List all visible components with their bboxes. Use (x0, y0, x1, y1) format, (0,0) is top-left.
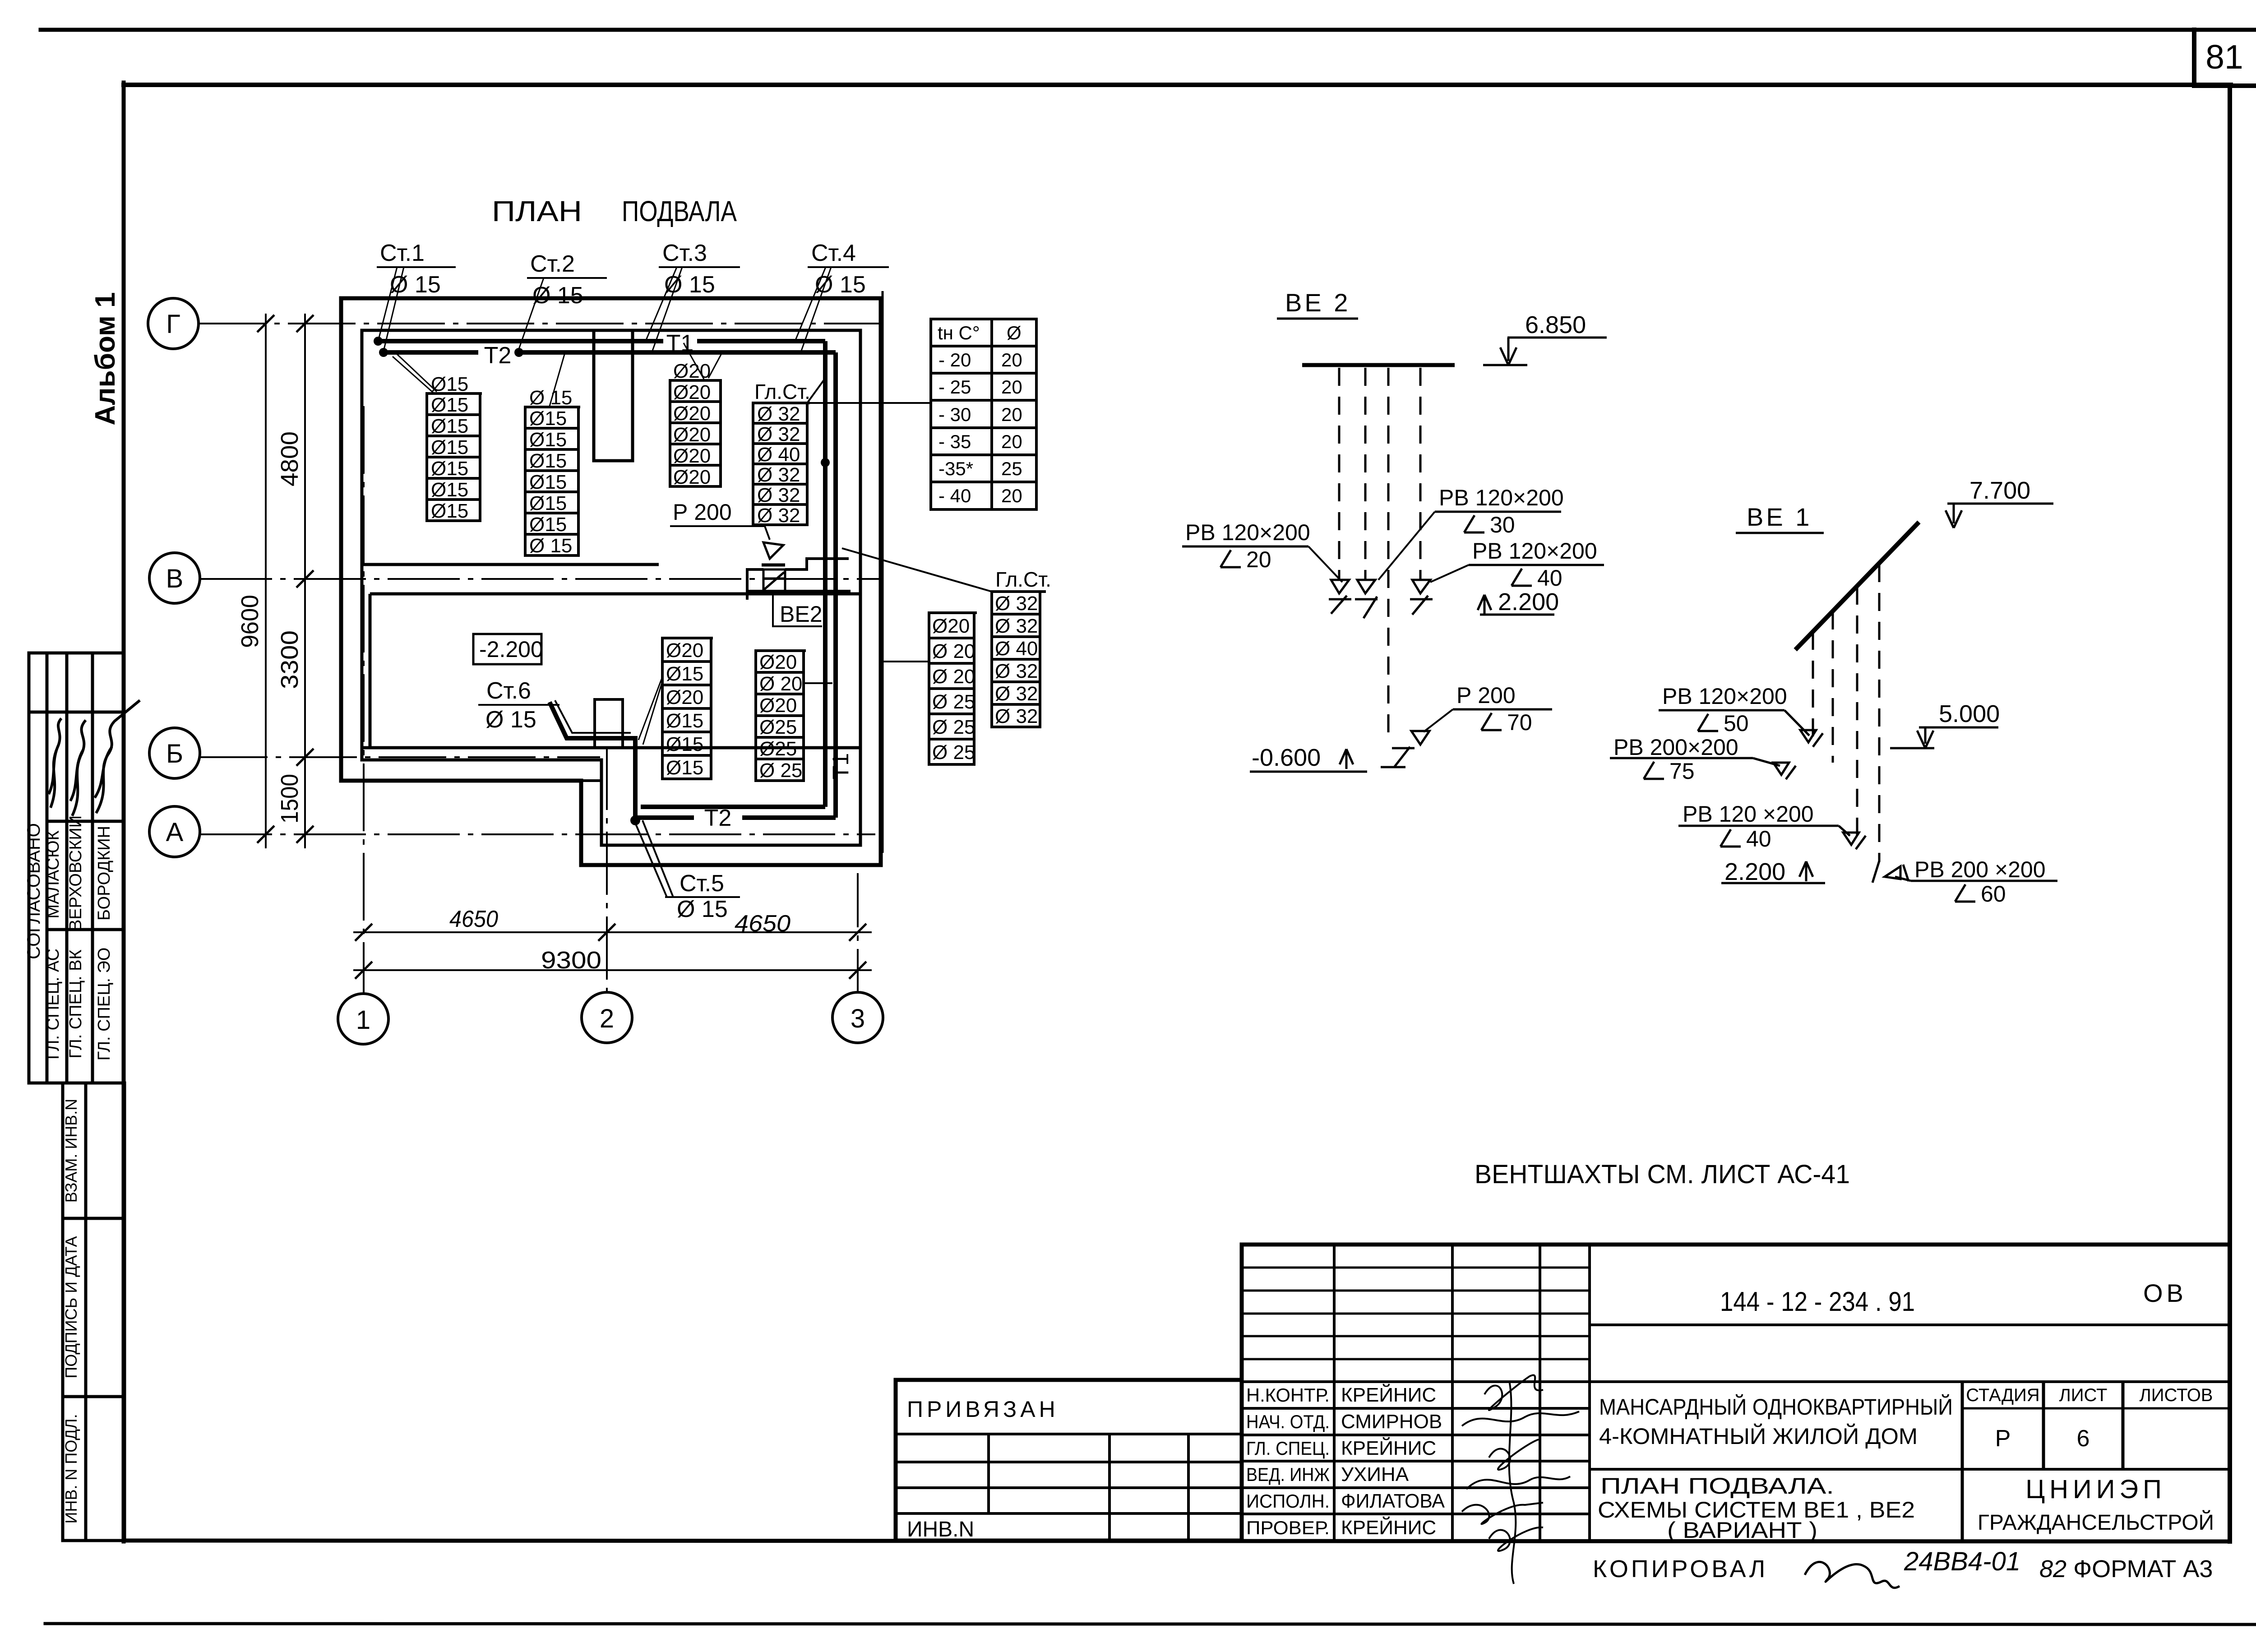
svg-text:ГЛ. СПЕЦ. АС: ГЛ. СПЕЦ. АС (44, 949, 63, 1060)
svg-text:ВЕРХОВСКИЙ: ВЕРХОВСКИЙ (65, 815, 85, 931)
svg-text:6.850: 6.850 (1525, 311, 1586, 338)
svg-text:НАЧ. ОТД.: НАЧ. ОТД. (1246, 1411, 1330, 1432)
left approval stamp table (СОГЛАСОВАНО) (29, 653, 124, 1083)
pipe junction dot T1 (374, 337, 383, 346)
svg-text:ВЕНТШАХТЫ СМ. ЛИСТ АС-41: ВЕНТШАХТЫ СМ. ЛИСТ АС-41 (1475, 1160, 1850, 1189)
svg-text:Ø 20: Ø 20 (932, 640, 975, 662)
svg-text:Ø20: Ø20 (666, 686, 703, 708)
svg-text:Ø15: Ø15 (431, 458, 468, 480)
pipe T1 top run (378, 339, 825, 343)
svg-text:Т1: Т1 (828, 753, 853, 779)
ВЕ1 dashed duct 4 (1878, 564, 1881, 862)
svg-text:3300: 3300 (276, 630, 303, 689)
svg-text:4800: 4800 (276, 431, 303, 486)
svg-text:Ø20: Ø20 (673, 403, 711, 425)
svg-text:Ø 32: Ø 32 (995, 683, 1038, 705)
svg-text:9600: 9600 (236, 595, 264, 648)
Р200 plan leader (670, 526, 770, 540)
svg-text:ЛИСТОВ: ЛИСТОВ (2140, 1385, 2213, 1405)
stack S5 leader (638, 677, 662, 745)
svg-text:РВ 200 ×200: РВ 200 ×200 (1914, 857, 2046, 882)
svg-text:Ø 15: Ø 15 (529, 535, 572, 557)
svg-text:Ø15: Ø15 (431, 436, 468, 458)
svg-text:20: 20 (1001, 376, 1022, 398)
svg-text:ЦНИИЭП: ЦНИИЭП (2025, 1475, 2166, 1504)
svg-text:МАЛАСЮК: МАЛАСЮК (44, 830, 63, 918)
svg-text:81: 81 (2205, 38, 2243, 76)
svg-text:Б: Б (166, 739, 183, 768)
svg-text:24ВВ4-01: 24ВВ4-01 (1904, 1547, 2020, 1576)
svg-text:ФИЛАТОВА: ФИЛАТОВА (1341, 1490, 1445, 1512)
svg-text:20: 20 (1001, 404, 1022, 425)
vent chamber box (747, 559, 851, 600)
frame bottom edge (124, 1541, 2230, 1541)
svg-text:Ø 25: Ø 25 (932, 716, 975, 738)
svg-text:Ø: Ø (1007, 322, 1022, 343)
svg-text:ИНВ.N: ИНВ.N (907, 1518, 974, 1541)
svg-text:МАНСАРДНЫЙ ОДНОКВАРТИРНЫЙ: МАНСАРДНЫЙ ОДНОКВАРТИРНЫЙ (1599, 1394, 1953, 1420)
ВЕ2 dashed duct 3 (long) (1387, 368, 1390, 740)
svg-text:20: 20 (1001, 431, 1022, 452)
svg-text:tн C°: tн C° (938, 322, 980, 343)
svg-text:20: 20 (1001, 349, 1022, 370)
ВЕ1 dashed duct 2 (1832, 611, 1834, 763)
svg-text:- 20: - 20 (938, 349, 971, 370)
svg-text:Ø 32: Ø 32 (995, 705, 1038, 727)
sheet outer bottom border (45, 1624, 2256, 1624)
svg-text:20: 20 (1246, 547, 1271, 572)
riser leader Ст.1 (378, 267, 404, 351)
bottom dimension line 4650+4650 (353, 931, 872, 933)
bottom dimension line 9300 (353, 969, 872, 971)
svg-text:Ø15: Ø15 (431, 394, 468, 416)
svg-text:Ø 15: Ø 15 (485, 707, 536, 733)
svg-text:Ø15: Ø15 (666, 663, 703, 685)
svg-text:В: В (166, 564, 184, 593)
svg-text:25: 25 (1001, 458, 1022, 479)
svg-text:Ø20: Ø20 (759, 651, 797, 673)
svg-text:Ø 25: Ø 25 (759, 759, 802, 782)
riser leader Ст.4 (795, 267, 831, 352)
svg-text:БОРОДКИН: БОРОДКИН (95, 826, 114, 921)
svg-text:ОВ: ОВ (2143, 1279, 2187, 1307)
svg-text:4650: 4650 (449, 906, 498, 932)
stack S6 of pipe diameters (756, 651, 806, 781)
leader РВ40 (1430, 565, 1469, 582)
svg-text:Ø15: Ø15 (666, 710, 703, 732)
pipe junction dot corner (821, 458, 830, 467)
axis circle Б (149, 728, 200, 778)
ВЕ2 roof line (1302, 363, 1455, 367)
svg-text:Ст.1: Ст.1 (380, 240, 425, 266)
bottom axis circle 2 (582, 992, 632, 1043)
ВЕ2 dashed duct 4 (1419, 368, 1422, 580)
stack S1 leader (393, 354, 437, 393)
frame top edge (124, 83, 2231, 87)
svg-text:Т2: Т2 (484, 342, 512, 369)
svg-text:Ø20: Ø20 (932, 615, 970, 637)
leader from plan to temp table (807, 402, 931, 404)
vent unit box with diagonal (763, 569, 785, 591)
svg-text:75: 75 (1669, 759, 1695, 784)
pipe junction dot T2 (379, 348, 388, 357)
svg-text:ИСПОЛН.: ИСПОЛН. (1246, 1490, 1330, 1512)
svg-text:5.000: 5.000 (1939, 700, 2000, 727)
svg-text:Ø 32: Ø 32 (757, 504, 800, 527)
svg-text:Ø15: Ø15 (529, 492, 567, 514)
svg-text:КРЕЙНИС: КРЕЙНИС (1341, 1383, 1436, 1406)
svg-text:Ø15: Ø15 (529, 514, 567, 536)
pipe right riser T1 vertical (641, 341, 825, 807)
svg-text:( ВАРИАНТ ): ( ВАРИАНТ ) (1667, 1518, 1817, 1543)
svg-text:Ø15: Ø15 (529, 407, 567, 430)
south room inner outline (370, 594, 860, 748)
svg-text:Ø20: Ø20 (673, 424, 711, 446)
stack S3 of pipe diameters (670, 380, 722, 486)
svg-text:Ø 40: Ø 40 (757, 444, 800, 466)
svg-text:Гл.Ст.: Гл.Ст. (754, 380, 810, 403)
title block staff rows (1242, 1382, 2230, 1514)
svg-text:СОГЛАСОВАНО: СОГЛАСОВАНО (24, 823, 44, 959)
svg-text:ГЛ. СПЕЦ. ВК: ГЛ. СПЕЦ. ВК (66, 949, 85, 1058)
svg-text:30: 30 (1490, 512, 1515, 537)
svg-text:Ø 25: Ø 25 (932, 691, 975, 713)
title block small grid upper rows (1242, 1268, 1590, 1359)
svg-text:Ø 32: Ø 32 (757, 464, 800, 486)
sheet name cell divider (1590, 1468, 2230, 1471)
pipe T2 junction dot right of label (514, 348, 523, 357)
vent unit top dash (762, 564, 785, 567)
ВЕ2 vent grille 3 (1410, 580, 1433, 615)
svg-text:ВЗАМ. ИНВ.N: ВЗАМ. ИНВ.N (62, 1099, 80, 1203)
svg-text:ГЛ. СПЕЦ. ЭО: ГЛ. СПЕЦ. ЭО (95, 948, 114, 1061)
svg-text:Ø 32: Ø 32 (757, 403, 800, 425)
ВЕ2 dashed duct 1 (1338, 368, 1341, 580)
leader РВ75 + grille (1753, 758, 1796, 779)
svg-text:Ст.4: Ст.4 (811, 240, 856, 266)
ВЕ2 label leader lines (773, 591, 822, 626)
svg-text:7.700: 7.700 (1969, 477, 2030, 504)
svg-text:Р 200: Р 200 (1456, 683, 1516, 708)
ВЕ2 vent grille 2 (1355, 580, 1378, 618)
svg-text:Ø25: Ø25 (759, 716, 797, 738)
svg-text:1500: 1500 (276, 774, 303, 824)
svg-text:60: 60 (1981, 881, 2006, 907)
stack S6 leader (804, 682, 832, 684)
svg-text:Р: Р (1995, 1425, 2011, 1452)
doc number cell divider (1590, 1323, 2230, 1326)
svg-text:РВ 120×200: РВ 120×200 (1472, 538, 1597, 564)
bottom axis circle 1 (338, 994, 388, 1044)
svg-text:ГЛ. СПЕЦ.: ГЛ. СПЕЦ. (1246, 1438, 1330, 1459)
svg-text:Ø 32: Ø 32 (757, 423, 800, 445)
wall at axis В: north room bottom (362, 563, 659, 566)
svg-text:Т2: Т2 (704, 805, 732, 831)
svg-text:УХИНА: УХИНА (1341, 1463, 1409, 1485)
pipe St6 branch (550, 702, 635, 821)
ВЕ1 roof slope line (1795, 522, 1919, 650)
svg-text:82 ФОРМАТ А3: 82 ФОРМАТ А3 (2039, 1555, 2213, 1583)
svg-text:40: 40 (1537, 565, 1563, 591)
svg-text:Ø 32: Ø 32 (995, 615, 1038, 637)
svg-text:РВ 200×200: РВ 200×200 (1613, 735, 1738, 760)
privyazan section column dividers (989, 1434, 1188, 1541)
svg-text:Ø20: Ø20 (666, 639, 703, 662)
svg-text:А: А (166, 818, 184, 847)
svg-text:Ø 40: Ø 40 (995, 638, 1038, 660)
svg-text:Ø15: Ø15 (666, 733, 703, 755)
svg-text:ВЕД. ИНЖ: ВЕД. ИНЖ (1246, 1464, 1330, 1485)
svg-text:ПРОВЕР.: ПРОВЕР. (1246, 1517, 1330, 1538)
svg-text:- 25: - 25 (938, 376, 971, 398)
bottom dimension ticks (355, 924, 866, 979)
leader РВ60 double grille (1872, 861, 1911, 883)
ВЕ2 dashed duct 2 (1364, 368, 1367, 580)
svg-text:Ø 32: Ø 32 (757, 484, 800, 506)
svg-text:Ø 20: Ø 20 (932, 666, 975, 688)
column axis 3 vertical dash-dot (857, 873, 859, 991)
riser leader Ст.5 (635, 820, 673, 897)
svg-text:КРЕЙНИС: КРЕЙНИС (1341, 1436, 1436, 1459)
svg-text:Ø 20: Ø 20 (759, 673, 802, 695)
staff labels column (1246, 1384, 1330, 1538)
svg-text:РВ 120×200: РВ 120×200 (1185, 520, 1310, 545)
leader diagonal to ГлСт table (842, 548, 992, 592)
bottom axis circle 3 (832, 992, 883, 1043)
svg-text:Ст.3: Ст.3 (662, 240, 707, 266)
leader РВ40-1 + grille (1839, 826, 1866, 849)
column axis 2 vertical dash-dot (606, 747, 608, 991)
svg-text:ВЕ 1: ВЕ 1 (1747, 503, 1812, 531)
leader РВ50 + grille (1784, 710, 1823, 747)
svg-text:ПЛАН: ПЛАН (492, 195, 582, 227)
leader РВ20 (1308, 546, 1342, 582)
svg-text:Ø20: Ø20 (759, 694, 797, 717)
svg-text:- 30: - 30 (938, 404, 971, 425)
svg-text:Ø 15: Ø 15 (529, 387, 572, 409)
step wall bottom middle (581, 779, 601, 782)
svg-text:ЛИСТ: ЛИСТ (2059, 1385, 2108, 1405)
staff signature squiggles (1462, 1375, 1579, 1584)
building outer wall (341, 298, 881, 865)
svg-text:РВ 120×200: РВ 120×200 (1662, 684, 1787, 709)
svg-text:9300: 9300 (541, 947, 601, 974)
svg-text:Ø15: Ø15 (666, 757, 703, 779)
building right wall extension line (882, 291, 884, 853)
page number box 81 (2194, 30, 2256, 86)
svg-text:6: 6 (2077, 1425, 2090, 1452)
svg-text:Ø15: Ø15 (431, 373, 468, 395)
svg-text:ПОДПИСЬ И ДАТА: ПОДПИСЬ И ДАТА (62, 1236, 80, 1378)
svg-text:Ø 15: Ø 15 (677, 896, 728, 922)
svg-text:Ø15: Ø15 (529, 429, 567, 451)
stage header row line (1962, 1407, 2230, 1410)
svg-text:ВЕ2: ВЕ2 (780, 602, 823, 627)
frame left edge (122, 83, 126, 1541)
svg-text:Н.КОНТР.: Н.КОНТР. (1246, 1384, 1330, 1406)
axis line А (dash-dot) (200, 833, 875, 835)
dimension ticks left column (257, 315, 314, 843)
svg-text:ИНВ. N ПОДЛ.: ИНВ. N ПОДЛ. (62, 1414, 80, 1524)
svg-text:ПОДВАЛА: ПОДВАЛА (622, 195, 737, 227)
temperature table (931, 319, 1036, 509)
svg-text:Ø 32: Ø 32 (995, 592, 1038, 615)
svg-text:ГРАЖДАНСЕЛЬСТРОЙ: ГРАЖДАНСЕЛЬСТРОЙ (1978, 1510, 2214, 1535)
riser leader Ст.3 (645, 267, 682, 352)
shaft near riser St6 (595, 699, 623, 748)
privyazan section rows (896, 1434, 1242, 1513)
svg-text:50: 50 (1724, 711, 1749, 736)
svg-text:Ø 25: Ø 25 (932, 741, 975, 764)
axis line Б (dash-dot) (200, 756, 600, 758)
svg-text:ПРИВЯЗАН: ПРИВЯЗАН (907, 1397, 1059, 1422)
svg-text:Ст.2: Ст.2 (530, 251, 575, 277)
svg-text:-2.200: -2.200 (479, 637, 543, 662)
svg-text:Ст.5: Ст.5 (680, 870, 724, 897)
stack S3 leader (684, 343, 722, 379)
svg-text:- 35: - 35 (938, 431, 971, 452)
svg-text:Ст.6: Ст.6 (486, 678, 531, 704)
svg-text:КРЕЙНИС: КРЕЙНИС (1341, 1516, 1436, 1539)
sheet top border line (41, 28, 2256, 32)
riser leader Ст.2 (518, 278, 544, 352)
elevation mark 2.200 BE2 (1478, 595, 1554, 615)
wall at axis В: south room top (370, 592, 860, 596)
svg-text:Ø15: Ø15 (431, 479, 468, 501)
stack S2 leader (550, 353, 565, 406)
vertical dimension line 9600 (265, 314, 267, 848)
svg-text:Ø 32: Ø 32 (995, 660, 1038, 682)
axis circle В (149, 553, 200, 603)
svg-text:144 - 12 - 234 . 91: 144 - 12 - 234 . 91 (1720, 1286, 1915, 1317)
stage columns verticals (1962, 1382, 2123, 1541)
svg-text:Ø15: Ø15 (431, 500, 468, 522)
svg-text:ВЕ 2: ВЕ 2 (1285, 288, 1350, 317)
svg-text:3: 3 (851, 1004, 865, 1033)
stack S5 of pipe diameters (662, 638, 713, 779)
pipe St6 branch parallel thin (555, 700, 631, 733)
leader РВ30 (1378, 512, 1435, 580)
title block outer boundary (896, 1245, 2230, 1541)
svg-text:Г: Г (166, 310, 180, 339)
stack S4 of pipe diameters (753, 403, 810, 525)
svg-text:-0.600: -0.600 (1252, 744, 1321, 771)
svg-text:СМИРНОВ: СМИРНОВ (1341, 1411, 1442, 1433)
svg-text:- 40: - 40 (938, 485, 971, 506)
svg-text:Ø20: Ø20 (673, 360, 711, 382)
svg-text:Ø 15: Ø 15 (664, 272, 715, 298)
svg-text:РВ 120 ×200: РВ 120 ×200 (1683, 801, 1814, 827)
svg-text:Ø15: Ø15 (529, 471, 567, 493)
leader from plan to stack S7 (883, 661, 929, 662)
svg-text:ПЛАН ПОДВАЛА.: ПЛАН ПОДВАЛА. (1600, 1473, 1834, 1499)
svg-text:КОПИРОВАЛ: КОПИРОВАЛ (1593, 1555, 1768, 1583)
kopiroval signature (1805, 1562, 1900, 1587)
svg-text:4-КОМНАТНЫЙ ЖИЛОЙ ДОМ: 4-КОМНАТНЫЙ ЖИЛОЙ ДОМ (1599, 1423, 1918, 1449)
left lower stamp table (ИНВ.N/ПОДПИСЬ) (63, 1083, 125, 1541)
stack S7 of pipe diameters (929, 613, 977, 764)
staff names column (1341, 1383, 1445, 1539)
svg-text:Альбом 1: Альбом 1 (90, 292, 121, 425)
axis line В (dash-dot) (200, 578, 883, 580)
Р200 vent triangle BE2 (1381, 731, 1429, 767)
Р200 plan arrow triangle (763, 542, 783, 559)
pipe right riser T2 vertical (635, 352, 836, 818)
pipe junction dot St5 (630, 815, 640, 825)
svg-text:Р 200: Р 200 (673, 500, 732, 525)
axis circle Г (148, 298, 199, 349)
svg-text:Ø25: Ø25 (759, 738, 797, 760)
svg-text:2: 2 (600, 1004, 614, 1033)
vertical dimension line 4800/3300/1500 (304, 314, 306, 848)
stack S2 of pipe diameters (525, 407, 580, 555)
title block small grid verticals (1334, 1245, 1590, 1541)
Гл.Ст. main riser table (992, 592, 1046, 727)
stamp signatures squiggles (49, 700, 140, 816)
svg-text:-35*: -35* (938, 458, 973, 479)
stack S1 of pipe diameters (427, 393, 482, 521)
svg-text:Гл.Ст.: Гл.Ст. (995, 568, 1051, 591)
svg-text:4650: 4650 (735, 911, 791, 937)
svg-text:Ø20: Ø20 (673, 466, 711, 488)
svg-text:40: 40 (1746, 826, 1771, 851)
axis circle А (149, 806, 200, 857)
svg-text:70: 70 (1507, 710, 1532, 735)
svg-text:Ø15: Ø15 (529, 450, 567, 472)
svg-text:Ø20: Ø20 (673, 445, 711, 467)
svg-text:СТАДИЯ: СТАДИЯ (1966, 1385, 2039, 1405)
svg-text:2.200: 2.200 (1498, 588, 1559, 615)
ВЕ2 vent grille 1 (1329, 580, 1351, 614)
stack S4 leader to riser corner (807, 378, 825, 403)
wall at axis Б lower-left bottom (362, 746, 601, 750)
column axis 1 vertical dash-dot (363, 406, 365, 993)
interior shaft partition (594, 330, 633, 461)
axis line Г (dash-dot) (199, 323, 883, 324)
svg-text:20: 20 (1001, 485, 1022, 506)
riser leader Ст.6 (549, 702, 550, 705)
leader Р200 (1424, 709, 1453, 732)
svg-text:РВ 120×200: РВ 120×200 (1439, 485, 1564, 510)
svg-text:Ø20: Ø20 (673, 381, 711, 403)
elevation box -2.200 (473, 634, 541, 664)
svg-text:1: 1 (356, 1005, 370, 1035)
svg-text:2.200: 2.200 (1724, 858, 1785, 885)
svg-text:Ø15: Ø15 (431, 415, 468, 437)
building inner wall (362, 330, 860, 845)
ВЕ1 dashed duct 1 (1812, 632, 1814, 740)
project name cell top (1590, 1380, 2230, 1383)
ВЕ1 dashed duct 3 (1856, 587, 1858, 847)
pipe T2 top run (384, 350, 836, 355)
frame right edge (2228, 85, 2232, 1541)
